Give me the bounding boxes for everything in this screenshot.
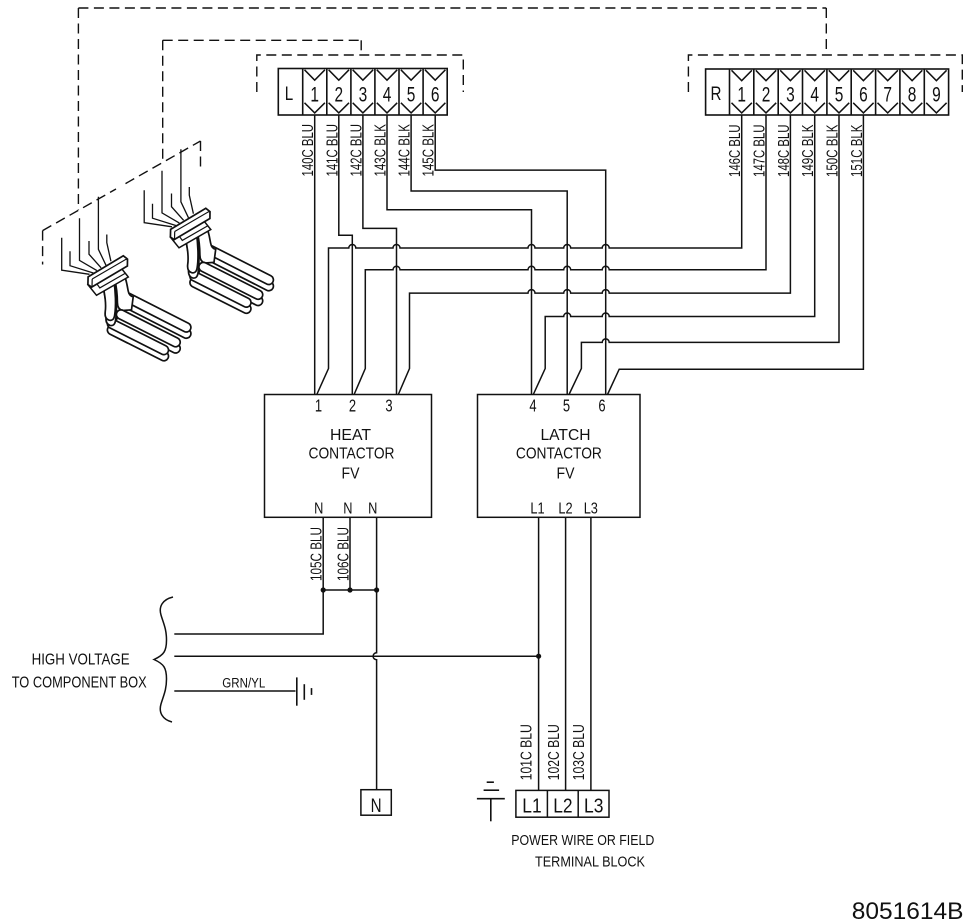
svg-text:9: 9	[932, 82, 941, 106]
ground termination symbol	[296, 677, 298, 705]
contactor K2: LATCH CONTACTOR FV box	[478, 395, 641, 518]
terminal L4	[374, 69, 376, 116]
wire 102C BLU: latch L2 to field terminal L2	[565, 517, 567, 790]
svg-text:5: 5	[835, 82, 844, 106]
heating element E1 - bend underside	[103, 284, 117, 325]
terminal R7	[875, 69, 877, 115]
neutral bus tie	[323, 589, 376, 591]
svg-text:147C BLU: 147C BLU	[752, 125, 769, 178]
wire 150C BLK: R5 rail	[569, 115, 839, 395]
contactor K1: HEAT CONTACTOR FV box	[265, 395, 432, 518]
terminal box N	[361, 790, 391, 816]
svg-text:L3: L3	[584, 795, 603, 818]
heating element E2 - neck tube front	[185, 232, 199, 273]
heating element E1 - flange bar	[88, 256, 128, 287]
terminal R5	[826, 69, 828, 115]
svg-text:L: L	[285, 82, 293, 104]
heating element E1 - lead wires	[62, 238, 90, 274]
svg-text:CONTACTOR: CONTACTOR	[516, 446, 602, 463]
wire: dashed drop to L block	[360, 40, 362, 55]
terminal R8	[899, 69, 901, 115]
svg-text:143C BLK: 143C BLK	[373, 124, 390, 177]
svg-text:6: 6	[598, 397, 605, 417]
wire 141C BLU: L2 to heat contactor terminal 2	[339, 115, 353, 395]
svg-text:LATCH: LATCH	[541, 427, 591, 444]
terminal R4	[802, 69, 804, 115]
svg-text:2: 2	[334, 82, 343, 106]
wire 149C BLK: R4 rail	[533, 115, 814, 395]
junction dot at L1 wire	[536, 654, 541, 659]
svg-text:HIGH VOLTAGE: HIGH VOLTAGE	[32, 652, 130, 669]
svg-text:4: 4	[529, 397, 536, 417]
heating element E2 - hairpin tube 2	[199, 269, 263, 306]
svg-text:3: 3	[786, 82, 795, 106]
wire GRN/YL ground lead	[174, 690, 295, 692]
terminal block L letter cell	[302, 69, 304, 116]
svg-text:106C BLU: 106C BLU	[336, 527, 353, 581]
wire 105C BLU: heat contactor N to neutral bus	[174, 517, 323, 634]
svg-text:6: 6	[431, 82, 440, 106]
svg-text:R: R	[711, 82, 722, 104]
terminal block R outline	[706, 69, 949, 115]
wire 101C BLU: latch L1 to field terminal L1	[538, 517, 540, 790]
svg-text:TERMINAL BLOCK: TERMINAL BLOCK	[535, 855, 645, 871]
wire: dashed harness leader 2	[163, 39, 362, 41]
svg-text:N: N	[314, 500, 323, 518]
heating element E2 - hairpin tube 3	[190, 278, 251, 313]
heating element E1 - hairpin tube 1	[123, 299, 191, 338]
svg-text:145C BLK: 145C BLK	[421, 124, 438, 177]
svg-text:POWER WIRE OR FIELD: POWER WIRE OR FIELD	[511, 833, 654, 849]
svg-text:4: 4	[383, 82, 392, 106]
dashed panel edge (diagonal)	[43, 189, 116, 231]
bracket: dashed bracket around terminal block R	[688, 55, 962, 92]
terminal L3	[350, 69, 352, 116]
svg-text:8051614B: 8051614B	[852, 898, 964, 923]
svg-text:2: 2	[762, 82, 771, 106]
svg-text:FV: FV	[342, 466, 361, 483]
svg-text:151C BLK: 151C BLK	[849, 124, 866, 177]
wire: dashed drop to R block	[825, 8, 827, 55]
svg-text:3: 3	[385, 397, 392, 417]
svg-text:103C BLU: 103C BLU	[571, 724, 588, 780]
wire 143C BLK: L4 to latch contactor terminal 4	[387, 115, 532, 395]
svg-text:L2: L2	[553, 795, 572, 818]
heating element E1 - hairpin tube 2	[116, 316, 180, 353]
svg-text:150C BLK: 150C BLK	[825, 124, 842, 177]
wire 145C BLK: L6 to latch contactor terminal 6	[435, 115, 606, 395]
terminal R2	[753, 69, 755, 115]
svg-text:N: N	[371, 794, 382, 816]
wire 142C BLU: L3 to heat contactor terminal 3	[363, 115, 397, 395]
heating element E1 - flange hole rim	[95, 267, 125, 288]
svg-text:CONTACTOR: CONTACTOR	[309, 446, 395, 463]
bracket: dashed bracket around terminal block L	[257, 55, 464, 92]
wire 151C BLK: R6 rail	[608, 115, 864, 395]
svg-text:1: 1	[315, 397, 322, 417]
svg-text:7: 7	[883, 82, 892, 106]
heating element E1 - neck tube rear	[115, 277, 134, 311]
svg-text:L2: L2	[558, 500, 572, 518]
svg-text:1: 1	[737, 82, 746, 106]
svg-text:N: N	[343, 500, 352, 518]
svg-text:8: 8	[908, 82, 917, 106]
svg-text:146C BLU: 146C BLU	[727, 125, 744, 178]
field terminal block L1 L2 L3	[516, 790, 609, 817]
svg-text:N: N	[368, 500, 377, 518]
wire 146C BLU: R1 rail	[317, 115, 742, 395]
terminal L6	[422, 69, 424, 116]
terminal block R letter cell	[729, 69, 731, 115]
terminal R3	[777, 69, 779, 115]
terminal R1	[732, 70, 752, 80]
terminal L2	[326, 69, 328, 116]
earth ground symbol	[477, 798, 505, 800]
svg-text:TO COMPONENT BOX: TO COMPONENT BOX	[12, 675, 148, 692]
terminal L1	[305, 70, 325, 80]
svg-text:5: 5	[407, 82, 416, 106]
svg-text:140C BLU: 140C BLU	[300, 124, 317, 177]
svg-text:L1: L1	[522, 795, 541, 818]
heating element E2 - flange ring plate	[170, 219, 210, 248]
wire 148C BLU: R3 rail	[398, 115, 790, 395]
wire 147C BLU: R2 rail	[354, 115, 766, 395]
svg-text:GRN/YL: GRN/YL	[222, 676, 265, 691]
svg-text:144C BLK: 144C BLK	[397, 124, 414, 177]
wire 103C BLU: latch L3 to field terminal L3	[590, 517, 592, 790]
svg-text:102C BLU: 102C BLU	[546, 724, 563, 780]
svg-text:L3: L3	[584, 500, 598, 518]
svg-text:HEAT: HEAT	[330, 427, 372, 444]
wire 144C BLK: L5 to latch contactor terminal 5	[411, 115, 567, 395]
wire: dashed harness leader from terminal block L/R to heaters (top)	[78, 7, 826, 9]
svg-text:L1: L1	[530, 500, 544, 518]
svg-text:1: 1	[310, 82, 319, 106]
svg-text:3: 3	[359, 82, 368, 106]
svg-text:5: 5	[563, 397, 570, 417]
heating element E1 - flange ring plate	[88, 266, 128, 295]
svg-text:105C BLU: 105C BLU	[309, 527, 326, 581]
heating element E2 - flange bar	[170, 208, 210, 239]
wire: high voltage feed line 2 to L1	[174, 655, 538, 657]
wire 106C BLU: heat contactor N to neutral bus	[349, 517, 351, 590]
svg-text:4: 4	[810, 82, 819, 106]
svg-text:149C BLK: 149C BLK	[800, 124, 817, 177]
heating element E2 - lead wires	[144, 190, 172, 227]
terminal L5	[398, 69, 400, 116]
terminal R6	[850, 69, 852, 115]
heating element E2 - neck tube rear	[197, 229, 216, 263]
heating element E1 - hairpin tube 3	[107, 325, 168, 360]
svg-text:142C BLU: 142C BLU	[348, 124, 365, 177]
heating element E2 - hairpin tube 1	[206, 252, 274, 291]
svg-text:141C BLU: 141C BLU	[324, 124, 341, 177]
wire: dashed drop to left heater	[77, 8, 79, 210]
svg-text:2: 2	[349, 397, 356, 417]
svg-text:FV: FV	[557, 466, 576, 483]
heating element E2 - bend underside	[185, 237, 199, 278]
svg-text:148C BLU: 148C BLU	[776, 125, 793, 178]
terminal block L outline	[278, 69, 447, 116]
wire: heat contactor N3 down to N terminal box (hops over high voltage line)	[373, 517, 376, 789]
svg-text:6: 6	[859, 82, 868, 106]
dashed panel edge vertical left	[42, 231, 44, 265]
junction dots on neutral bus	[321, 587, 326, 592]
wire: dashed drop to right heater	[162, 40, 164, 163]
heating element E1 - neck tube front	[102, 279, 116, 320]
brace for HIGH VOLTAGE TO COMPONENT BOX	[154, 597, 173, 722]
dashed panel edge vertical right	[200, 141, 202, 172]
terminal R9	[923, 69, 925, 115]
svg-text:101C BLU: 101C BLU	[519, 724, 536, 780]
heating element E2 - flange hole rim	[178, 220, 208, 241]
wire 140C BLU: L1 to heat contactor terminal 1	[314, 115, 316, 395]
